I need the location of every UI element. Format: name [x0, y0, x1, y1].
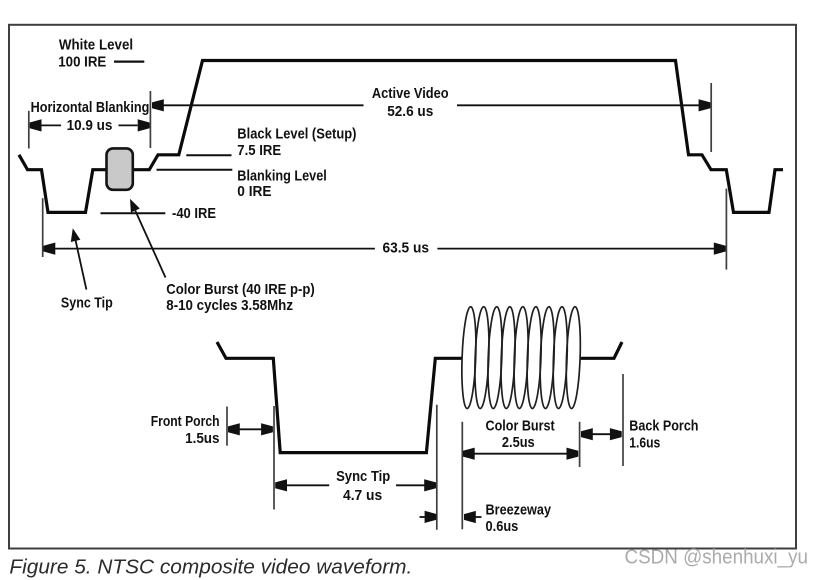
- svg-text:0.6us: 0.6us: [486, 518, 519, 535]
- wire dash to white level: [114, 60, 144, 62]
- wire color burst 2.5us double arrow: [463, 448, 578, 460]
- svg-text:Back Porch: Back Porch: [629, 418, 698, 435]
- wire color burst callout arrow: [130, 199, 166, 278]
- wire dash to 7.5 IRE level: [186, 154, 231, 156]
- node tick SyncTip-right: [436, 405, 438, 530]
- node tick FP-left: [226, 407, 228, 446]
- svg-text:100 IRE: 100 IRE: [58, 53, 106, 70]
- wire bottom waveform left part: [217, 342, 462, 453]
- wire breezeway right arrow: [464, 511, 482, 523]
- svg-text:Color Burst (40 IRE p-p): Color Burst (40 IRE p-p): [166, 281, 314, 298]
- wire dash to -40 IRE level: [101, 212, 166, 214]
- node tick AV-right: [710, 83, 712, 152]
- svg-text:CSDN @shenhuxi_yu: CSDN @shenhuxi_yu: [625, 547, 809, 569]
- color burst marker (gray rounded rect): [107, 148, 133, 189]
- svg-text:Front Porch: Front Porch: [151, 413, 220, 430]
- color burst coil (9 loops): [460, 306, 582, 408]
- wire back porch double arrow: [581, 428, 622, 440]
- wire bottom waveform right part: [580, 342, 622, 358]
- wire sync tip callout arrow: [71, 228, 87, 289]
- wire 63.5us arrow: [44, 243, 726, 255]
- svg-text:8-10 cycles 3.58Mhz: 8-10 cycles 3.58Mhz: [166, 297, 293, 314]
- svg-text:Breezeway: Breezeway: [486, 501, 552, 518]
- svg-text:63.5 us: 63.5 us: [383, 240, 430, 257]
- svg-text:Active Video: Active Video: [372, 85, 449, 102]
- node tick FP-right / SyncTip-left: [273, 406, 275, 510]
- svg-text:7.5 IRE: 7.5 IRE: [237, 142, 281, 159]
- wire front porch double arrow: [228, 423, 273, 435]
- wire 10.9us arrow: [30, 119, 150, 131]
- wire Active Video arrow: [152, 99, 710, 111]
- node tick 63.5-left: [42, 198, 44, 257]
- wire sync tip 4.7us arrow: [275, 479, 436, 491]
- svg-text:Color Burst: Color Burst: [486, 418, 555, 435]
- node tick BackPorch-right: [622, 374, 624, 466]
- svg-text:-40 IRE: -40 IRE: [172, 205, 216, 222]
- svg-text:1.6us: 1.6us: [629, 435, 660, 452]
- node tick HB-left: [28, 111, 30, 149]
- svg-text:2.5us: 2.5us: [502, 434, 535, 451]
- wire breezeway left arrow: [420, 511, 437, 523]
- node tick Burst-left: [461, 422, 463, 529]
- svg-text:Sync Tip: Sync Tip: [336, 468, 390, 485]
- svg-text:0 IRE: 0 IRE: [237, 183, 271, 200]
- svg-text:1.5us: 1.5us: [185, 430, 219, 447]
- svg-text:10.9 us: 10.9 us: [67, 117, 113, 134]
- svg-text:White Level: White Level: [59, 37, 133, 54]
- wire dash to blanking level: [157, 169, 233, 171]
- svg-text:Sync Tip: Sync Tip: [61, 295, 113, 312]
- svg-text:52.6 us: 52.6 us: [387, 103, 433, 120]
- node tick HB-right: [149, 91, 151, 148]
- wire top composite waveform: [19, 61, 783, 213]
- svg-text:Figure 5. NTSC composite video: Figure 5. NTSC composite video waveform.: [9, 555, 412, 578]
- svg-text:Black Level (Setup): Black Level (Setup): [237, 125, 356, 142]
- svg-text:4.7 us: 4.7 us: [343, 487, 382, 504]
- node tick Burst-right: [579, 422, 581, 467]
- node tick 63.5-right: [725, 189, 727, 270]
- svg-text:Horizontal Blanking: Horizontal Blanking: [31, 99, 150, 116]
